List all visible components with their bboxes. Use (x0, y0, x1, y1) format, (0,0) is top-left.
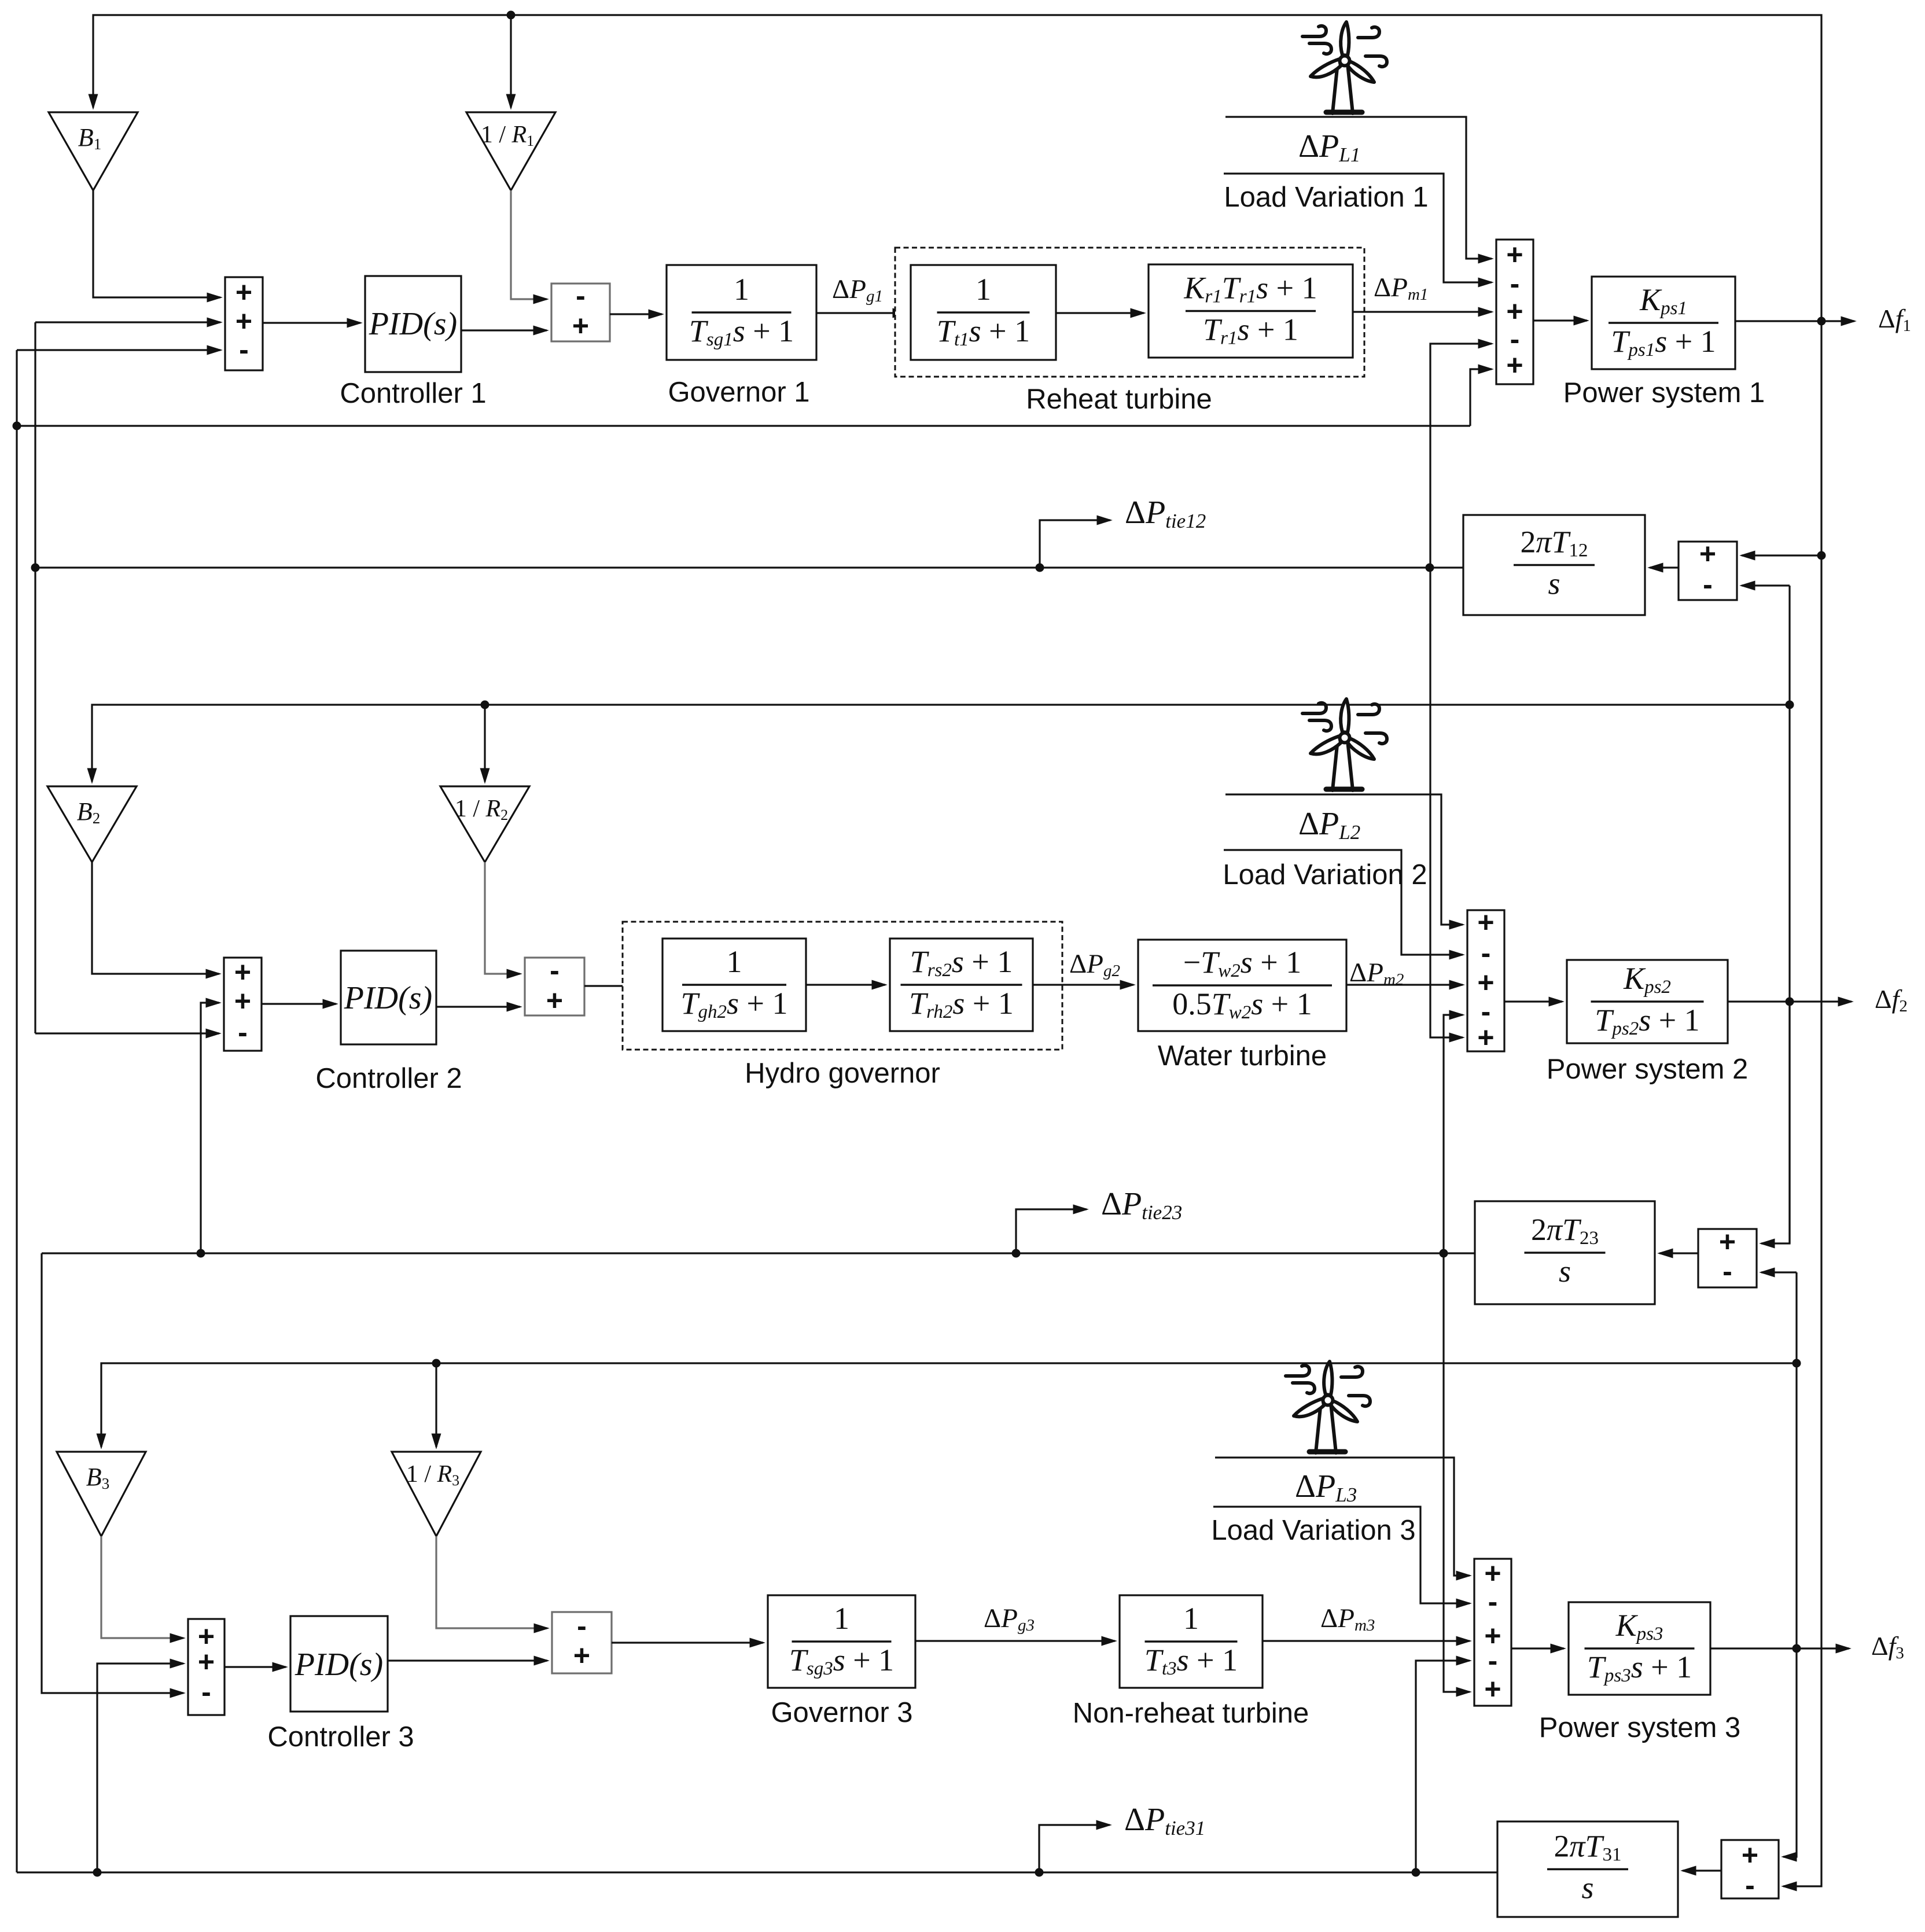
wire power sum1 - from tie12 (1430, 344, 1492, 568)
wire droop2 to hydro governor (584, 985, 658, 987)
block reheat Kr1 (1149, 264, 1353, 358)
summing junction droop3 (552, 1612, 612, 1673)
wire Df1 to tie31 sum - (1783, 555, 1821, 1886)
wire Controller1 to sum2 input+ (461, 329, 547, 331)
wire tie23 to ACE3 - (42, 1253, 183, 1693)
icon wind turbine 1 (1302, 22, 1387, 113)
wire tie31 to ACE3 + (97, 1664, 183, 1872)
wire PS3 output Df3 (1710, 1647, 1849, 1649)
svg-text:Tt3s + 1: Tt3s + 1 (1144, 1643, 1238, 1679)
wire DPtie23 branch (1016, 1209, 1087, 1253)
wire tie23 line (42, 1252, 1475, 1254)
svg-text:Controller 3: Controller 3 (267, 1721, 414, 1753)
wire load2 line2 to sum - (1224, 850, 1463, 955)
wire drop to 1/R3 (435, 1363, 437, 1447)
wire PS2 output Df2 (1728, 1000, 1852, 1002)
svg-text:Governor 3: Governor 3 (771, 1697, 912, 1728)
svg-text:+: + (573, 1639, 590, 1672)
svg-text:1: 1 (727, 944, 742, 979)
wire Df3 to tie23 sum - (1761, 1271, 1797, 1273)
wire Df1 vertical upper (1820, 321, 1822, 555)
wire DPtie31 branch (1039, 1825, 1110, 1872)
wire Df1 to tie12 sum + (1742, 554, 1821, 556)
svg-text:Reheat turbine: Reheat turbine (1026, 384, 1212, 415)
junction 1/R1 tap area1 (507, 11, 516, 20)
wire B1 to sum1 input+ (93, 190, 220, 297)
junction tie31 to power sum1 branch (13, 422, 21, 430)
wire drop to 1/R2 (484, 705, 485, 782)
svg-text:Tsg1s + 1: Tsg1s + 1 (689, 314, 794, 350)
icon wind turbine 3 (1286, 1361, 1370, 1453)
block tie line 2piT31/s (1497, 1821, 1678, 1917)
block Controller 3 PID (290, 1616, 388, 1712)
svg-text:+: + (1477, 966, 1494, 999)
wire DPg2 to water turbine (1033, 984, 1133, 985)
junction DPtie23 branch (1012, 1249, 1021, 1258)
svg-text:PID(s): PID(s) (295, 1647, 383, 1683)
wire tie31 riser to ACE1 - (16, 350, 17, 1872)
wire tie12 down to power sum2 + (1430, 568, 1463, 1037)
summing junction ACE3 (188, 1619, 224, 1715)
svg-text:Water turbine: Water turbine (1158, 1040, 1327, 1072)
svg-text:-: - (201, 1676, 211, 1708)
svg-text:Load Variation 3: Load Variation 3 (1211, 1515, 1415, 1546)
wire DPm3 to power sum3 (1263, 1640, 1470, 1642)
svg-text:Power system 1: Power system 1 (1563, 377, 1765, 409)
junction Df3 (1793, 1644, 1801, 1653)
wire hydro stages (806, 984, 885, 985)
svg-text:1 / R3: 1 / R3 (406, 1461, 459, 1489)
junction tie31 ACE3 riser (93, 1868, 102, 1877)
summing junction droop2 (525, 958, 584, 1015)
svg-text:s: s (1548, 566, 1560, 601)
gain 1/R1 (466, 112, 555, 190)
block Governor 3 (768, 1595, 915, 1688)
svg-text:Controller 2: Controller 2 (315, 1063, 462, 1094)
svg-text:+: + (235, 305, 252, 337)
wire power sum1 to PS1 (1533, 319, 1587, 321)
summing junction power system 1 (1496, 240, 1533, 384)
svg-text:Tr1s + 1: Tr1s + 1 (1203, 312, 1298, 349)
junction Df3 top right (1793, 1359, 1801, 1368)
block Governor 1 (667, 265, 816, 360)
svg-text:Tt1s + 1: Tt1s + 1 (937, 314, 1030, 350)
junction Df1 (1817, 317, 1826, 326)
block turbine lag Tt1 (911, 265, 1056, 360)
svg-text:+: + (1742, 1839, 1758, 1871)
wire tie12 sum to block (1650, 566, 1679, 568)
svg-text:+: + (1484, 1673, 1501, 1705)
wire tie12 to sum1 input+ (35, 321, 220, 323)
svg-text:Trs2s + 1: Trs2s + 1 (910, 944, 1013, 981)
block Power system 1 (1592, 277, 1735, 369)
wire tie12 riser ACE1/ACE2 (34, 322, 36, 1033)
wire B2 to ACE2 + (92, 862, 219, 974)
wire load3 line2 to sum - (1213, 1507, 1470, 1603)
wire sum2 to Governor1 (610, 313, 662, 315)
svg-text:Non-reheat turbine: Non-reheat turbine (1073, 1698, 1309, 1729)
wire load2 line1 to sum + (1225, 794, 1463, 925)
svg-text:+: + (235, 276, 252, 308)
dashed box Hydro governor (623, 922, 1062, 1050)
junction Df2 top wire (1786, 701, 1794, 709)
wire power sum2 to PS2 (1504, 1000, 1562, 1002)
summing junction tie23 (1698, 1229, 1757, 1287)
summing junction tie31 (1721, 1840, 1779, 1898)
wire PS1 output Df1 (1735, 320, 1854, 322)
svg-text:1: 1 (1183, 1601, 1199, 1636)
block tie line 2piT23/s (1475, 1201, 1655, 1304)
svg-text:+: + (1477, 1021, 1494, 1054)
junction 1/R2 tap (481, 701, 489, 709)
svg-text:+: + (1484, 1557, 1501, 1589)
wire ACE1 to Controller1 (263, 322, 360, 323)
wire power sum3 to PS3 (1511, 1647, 1564, 1649)
wire tie12 to ACE2 - (35, 1032, 219, 1034)
svg-text:-: - (1703, 568, 1713, 601)
svg-text:Trh2s + 1: Trh2s + 1 (909, 986, 1014, 1022)
junction Df2 (1786, 998, 1794, 1006)
summing junction droop1 (551, 284, 610, 341)
wire Df2 to tie12 sum - (1742, 584, 1790, 586)
svg-text:Power system 3: Power system 3 (1539, 1712, 1741, 1743)
junction DPtie12 branch (1036, 564, 1044, 572)
summing junction ACE2 (224, 958, 262, 1051)
svg-text:-: - (238, 1016, 248, 1048)
svg-text:1: 1 (976, 272, 991, 307)
svg-text:s: s (1581, 1871, 1593, 1905)
icon wind turbine 2 (1302, 699, 1387, 790)
block tie line 2piT12/s (1463, 515, 1645, 615)
svg-text:+: + (1719, 1226, 1736, 1258)
svg-text:1: 1 (834, 1601, 849, 1636)
svg-text:Hydro governor: Hydro governor (745, 1058, 940, 1089)
wire Controller2 to droop2 + (436, 1006, 520, 1007)
svg-text:+: + (1506, 349, 1523, 381)
svg-text:Load Variation 1: Load Variation 1 (1224, 182, 1428, 213)
svg-text:1 / R2: 1 / R2 (455, 796, 508, 823)
junction tie23 ACE2 riser (197, 1249, 205, 1258)
wire DPm1 to power sum1 (1353, 311, 1492, 312)
junction tie23 to sum2 (1440, 1249, 1448, 1258)
wire ACE2 to Controller2 (262, 1003, 336, 1004)
svg-text:Tsg3s + 1: Tsg3s + 1 (789, 1643, 894, 1679)
wire B3 to ACE3 + (101, 1536, 183, 1638)
svg-text:Tps1s + 1: Tps1s + 1 (1611, 324, 1716, 360)
svg-text:-: - (576, 279, 586, 312)
wire 1/R1 to sum2 input- (511, 190, 547, 299)
svg-text:Tps2s + 1: Tps2s + 1 (1595, 1003, 1699, 1039)
wire drop to 1/R1 (510, 15, 511, 108)
wire tie12 line (35, 566, 1463, 568)
wire Df2 vertical (1788, 586, 1790, 1243)
svg-text:−Tw2s + 1: −Tw2s + 1 (1183, 945, 1302, 981)
wire power sum3 - down to tie31 (1416, 1661, 1470, 1872)
svg-text:-: - (1488, 1585, 1498, 1618)
svg-text:PID(s): PID(s) (344, 980, 432, 1016)
svg-text:-: - (1481, 937, 1491, 969)
gain 1/R2 (440, 786, 529, 862)
junction tie12 to sum1 (1426, 564, 1434, 572)
wire 1/R3 to droop3 - (436, 1536, 547, 1628)
junction 1/R3 tap (432, 1359, 441, 1368)
svg-text:+: + (234, 956, 251, 988)
svg-text:+: + (234, 985, 251, 1017)
wire ACE3 to Controller3 (224, 1666, 286, 1668)
summing junction ACE1 (225, 277, 263, 370)
dashed box Reheat turbine (895, 248, 1364, 377)
svg-text:Load Variation 2: Load Variation 2 (1223, 859, 1427, 890)
wire Governor1 to turbine DPg1 (816, 312, 906, 314)
svg-text:1 / R1: 1 / R1 (481, 122, 534, 149)
svg-text:+: + (198, 1646, 215, 1678)
wire tie31 sum to block (1683, 1870, 1721, 1871)
junction tie31 to power sum3 (1412, 1868, 1420, 1877)
wire Controller3 to droop3 + (388, 1659, 547, 1661)
summing junction power system 3 (1474, 1559, 1511, 1706)
wire tie31 to sum1 input- (17, 349, 220, 351)
svg-text:-: - (1745, 1869, 1755, 1901)
svg-text:-: - (1488, 1644, 1498, 1677)
svg-text:1: 1 (734, 272, 749, 307)
svg-text:Governor 1: Governor 1 (668, 377, 809, 408)
wire tie23 down to power sum3 + (1444, 1253, 1470, 1692)
gain 1/R3 (392, 1452, 481, 1536)
wire load1 line1 to sum input+ (1225, 117, 1492, 259)
block Power system 2 (1567, 960, 1728, 1043)
svg-text:-: - (239, 333, 249, 366)
summing junction power system 2 (1467, 910, 1504, 1051)
block hydro gov lag (662, 939, 806, 1031)
wire tie31 line (17, 1871, 1497, 1873)
wire load1 line2 to sum input- (1224, 174, 1492, 282)
block Controller 2 PID (341, 951, 436, 1044)
junction Df1 tie12 tap (1817, 551, 1826, 560)
junction tie12 left riser (31, 564, 40, 572)
svg-text:-: - (1722, 1255, 1732, 1287)
wire Df3 feedback top area3 (101, 1363, 1797, 1447)
wire Df3 to tie31 sum + (1783, 1648, 1797, 1857)
junction DPtie31 branch (1035, 1868, 1044, 1877)
gain B1 (49, 112, 138, 190)
wire Tt1 to reheat (1056, 312, 1144, 314)
block Controller 1 PID (365, 276, 461, 372)
wire DPg3 to non-reheat (915, 1640, 1115, 1642)
wire DPm2 to power sum2 (1346, 984, 1463, 985)
gain B2 (47, 786, 137, 862)
svg-text:PID(s): PID(s) (369, 306, 457, 342)
wire tie31 fb to power sum1 + (1470, 369, 1492, 426)
svg-text:+: + (1477, 906, 1494, 939)
svg-text:+: + (1699, 538, 1716, 570)
svg-text:Controller 1: Controller 1 (340, 378, 486, 409)
wire Df3 vertical upper (1795, 1272, 1797, 1648)
wire load3 line1 to sum + (1215, 1458, 1470, 1576)
svg-text:+: + (1506, 238, 1523, 271)
wire tie23 to ACE2 + (201, 1003, 219, 1253)
svg-text:s: s (1559, 1254, 1571, 1289)
svg-text:Tgh2s + 1: Tgh2s + 1 (680, 986, 787, 1022)
svg-text:+: + (546, 984, 563, 1017)
svg-text:-: - (577, 1610, 587, 1642)
svg-text:+: + (572, 310, 589, 342)
svg-text:Tps3s + 1: Tps3s + 1 (1587, 1650, 1692, 1686)
wire Df2 feedback top area2 (92, 705, 1790, 782)
wire power sum2 - down to tie23 (1444, 1015, 1463, 1253)
summing junction tie12 (1679, 542, 1737, 600)
block Power system 3 (1569, 1602, 1710, 1695)
wire tie23 sum to block (1659, 1252, 1698, 1254)
wire droop3 to Governor3 (612, 1642, 763, 1643)
wire 1/R2 to droop2 - (485, 862, 520, 974)
wire Df1 feedback top, to B1 and 1/R1 (93, 15, 1821, 321)
block hydro transient droop (890, 939, 1033, 1031)
block Non-reheat turbine (1120, 1595, 1263, 1688)
wire DPtie12 branch (1040, 520, 1110, 568)
svg-text:-: - (550, 954, 560, 987)
block Water turbine (1138, 940, 1346, 1031)
wire Df2 to tie23 sum + (1761, 1002, 1790, 1243)
svg-text:Power system 2: Power system 2 (1547, 1054, 1749, 1085)
wire tie31 fb across to area1 sum (17, 425, 1470, 426)
gain B3 (57, 1452, 146, 1536)
